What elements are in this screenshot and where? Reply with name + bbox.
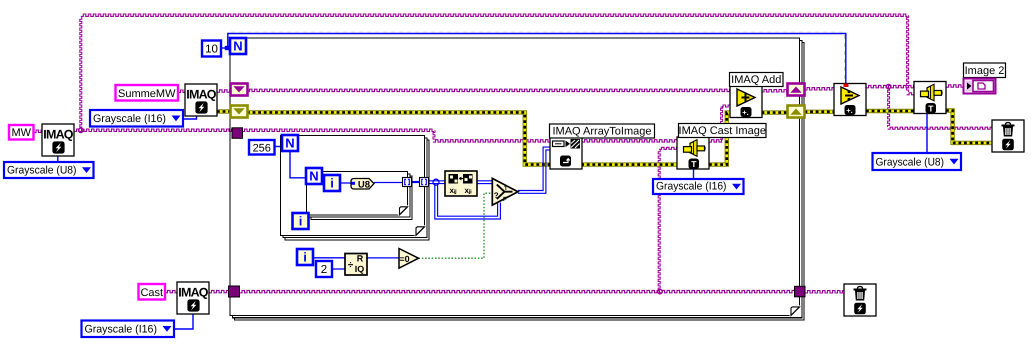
wire: Grayscale I16 dropdown to Cast create (174, 314, 193, 330)
svg-text:F: F (503, 196, 507, 203)
constant: 10 (202, 41, 221, 57)
dropdown: Grayscale (U8) right (873, 153, 962, 170)
wire: SummeMW label to IMAQ Create (178, 90, 185, 92)
wire: blue 10 to N (221, 46, 230, 50)
svg-text:IMAQ: IMAQ (186, 88, 217, 102)
wire: right Cast out to Image 2 (946, 85, 964, 87)
wire: Cast image across loop bottom (240, 290, 796, 292)
svg-text:+.: +. (846, 106, 852, 115)
tunnel: Cast image output tunnel (795, 286, 806, 297)
wire: error Divide to right Cast (866, 109, 914, 113)
node: Select (492, 178, 518, 205)
terminal: i of 256 loop (293, 213, 309, 229)
node: IMAQ Create Cast (177, 282, 209, 314)
svg-text:Grayscale (U8): Grayscale (U8) (876, 157, 945, 169)
wire: MW image long route over top to right cast (80, 14, 914, 128)
svg-text:T: T (928, 104, 934, 114)
for loop: outer N=10 loop (230, 38, 804, 320)
label: SummeMW control (116, 85, 179, 101)
tunnel: left SR purple (SummeMW image) (231, 84, 248, 96)
wire: MW label to IMAQ Create (34, 130, 43, 132)
wire: MW image inside loop to ArrayToImage (242, 129, 550, 142)
wire: blue count wire from 10 constant over loop to IMAQ Divide (228, 32, 846, 83)
tunnel: Cast image input tunnel (229, 286, 240, 297)
dropdown: Grayscale (I16) middle (653, 179, 744, 194)
svg-text:N: N (285, 136, 294, 151)
node: IMAQ Create SummeMW (185, 84, 217, 116)
svg-text:IMAQ ArrayToImage: IMAQ ArrayToImage (552, 126, 651, 138)
label: Image 2 (964, 63, 1006, 78)
terminal: i of innermost loop (324, 175, 340, 191)
indicator: Image 2 terminal (964, 79, 996, 94)
wire: Cast label to IMAQ Create (165, 290, 177, 292)
wire: error SummeMW create to left SR (217, 109, 232, 113)
svg-text:IMAQ Add: IMAQ Add (731, 74, 781, 86)
wire: 2D array transpose to select T input (477, 181, 492, 184)
node: Equal to 0 (399, 249, 419, 269)
wire: IMAQ Divide out to right Cast with branch to dispose (866, 84, 992, 129)
wire: error Cast Image up to IMAQ Add (709, 113, 730, 165)
wire: error right SR to Divide (805, 110, 835, 114)
wire: i of big loop to quotient (314, 257, 345, 259)
svg-text:Cast: Cast (140, 287, 163, 299)
node: IMAQ Dispose bottom (844, 284, 876, 316)
wire: error right Cast to dispose (946, 111, 992, 143)
terminal: N of innermost loop (306, 168, 322, 184)
wire: Grayscale I16 dropdown to Cast Image (693, 169, 695, 179)
wire: ArrayToImage out to Cast Image (582, 140, 677, 142)
svg-text:2: 2 (321, 264, 327, 276)
svg-text:R: R (357, 254, 364, 264)
svg-text:i: i (330, 176, 334, 191)
wire: Cast image to loop tunnel (209, 290, 230, 292)
tunnel: 256 loop auto-index (420, 178, 429, 187)
node: IMAQ Cast Image right (914, 82, 946, 114)
svg-text:Grayscale (I16): Grayscale (I16) (656, 181, 727, 193)
tunnel: MW image input tunnel (232, 128, 243, 139)
dropdown: Grayscale (I16) bottom-left (82, 321, 175, 338)
svg-text:?: ? (494, 191, 499, 200)
svg-text:xⱼᵢ: xⱼᵢ (465, 186, 472, 195)
svg-text:IMAQ Cast Image: IMAQ Cast Image (679, 125, 766, 137)
node: IMAQ Create MW (42, 124, 74, 156)
svg-text:IMAQ: IMAQ (43, 128, 74, 142)
svg-text:=0: =0 (399, 254, 409, 264)
svg-text:Grayscale (I16): Grayscale (I16) (93, 113, 166, 125)
wire: left SR to IMAQ Add (247, 89, 730, 91)
svg-text:Image 2: Image 2 (965, 65, 1005, 77)
svg-text:i: i (303, 250, 307, 265)
wire: IMAQ Add out to right SR (762, 90, 789, 92)
wire: Cast Image out up to IMAQ Add (709, 105, 730, 142)
svg-text:Grayscale (I16): Grayscale (I16) (85, 324, 158, 336)
wire: error left SR down to Cast Image (247, 112, 677, 164)
wire: 256 to N (274, 146, 282, 148)
node: IMAQ Dispose right (992, 120, 1024, 152)
for loop: 256 loop (281, 136, 430, 240)
wire: 2 to quotient (332, 268, 345, 270)
svg-text:IMAQ: IMAQ (178, 286, 209, 300)
terminal: i of outer loop (297, 249, 313, 265)
wire: 2D array down-around to select F input (435, 184, 501, 219)
svg-text:N: N (309, 169, 318, 184)
tunnel: left SR olive (error) (231, 106, 248, 118)
coercion dot on divide (844, 84, 849, 88)
svg-text:10: 10 (205, 44, 218, 56)
wire: Cast image branch up to Cast Image dst input (658, 147, 677, 293)
tunnel: right SR purple (788, 84, 805, 96)
svg-text:÷: ÷ (348, 260, 354, 271)
wire: 2D array select out to ArrayToImage (518, 147, 550, 193)
node: Quotient and Remainder (345, 254, 367, 276)
node: U8 conversion (351, 179, 374, 191)
svg-text:SummeMW: SummeMW (118, 88, 176, 100)
node: IMAQ Divide (834, 84, 866, 116)
wire: quotient R to equals-zero (367, 257, 399, 259)
wire: boolean equals-zero to select S input (419, 193, 493, 258)
node: IMAQ Cast Image (677, 137, 709, 169)
dropdown: Grayscale (I16) top-left (90, 110, 183, 127)
svg-text:i: i (299, 214, 303, 229)
label: IMAQ Add (730, 73, 784, 87)
label: IMAQ ArrayToImage (550, 124, 655, 138)
wire: SummeMW image to left shift register (217, 90, 232, 92)
wire: Grayscale U8 dropdown to right Cast (926, 114, 928, 155)
svg-text:xᵢⱼ: xᵢⱼ (450, 186, 458, 195)
wire: i to U8 convert (340, 182, 351, 184)
wire: U8 to inner tunnel (374, 182, 403, 184)
terminal: N of 256 loop (282, 135, 298, 151)
label: Cast control (139, 284, 166, 300)
wire: Grayscale I16 dropdown to SummeMW create (183, 116, 197, 120)
svg-text:256: 256 (253, 142, 271, 154)
wire: 1D array between tunnels (411, 181, 420, 183)
svg-text:N: N (233, 39, 242, 54)
node: IMAQ Add (730, 86, 762, 118)
for loop: innermost loop (307, 172, 413, 220)
constant: 2 (316, 261, 332, 277)
svg-text:U8: U8 (358, 179, 370, 190)
tunnel: right SR olive (788, 106, 805, 118)
wire: Grayscale U8 dropdown to MW create (57, 156, 59, 163)
dropdown: Grayscale (U8) left (4, 162, 94, 178)
svg-text:Grayscale (U8): Grayscale (U8) (7, 165, 77, 177)
wire: error IMAQ Add to right SR (762, 110, 789, 114)
label: IMAQ Cast Image (679, 124, 767, 138)
constant: 256 (249, 140, 275, 155)
label: MW control (9, 125, 34, 140)
tunnel: inner loop auto-index (403, 178, 412, 187)
terminal: N of outer loop (230, 38, 246, 54)
svg-text:T: T (691, 159, 697, 169)
wire: Cast image to bottom dispose (805, 291, 845, 293)
wire: MW image out to loop tunnel with branch up (74, 128, 232, 132)
wire: N of 256 loop to inner N (290, 151, 306, 178)
node: Transpose 2D Array (445, 171, 477, 196)
node: IMAQ ArrayToImage (550, 137, 582, 169)
svg-text:T: T (504, 185, 508, 192)
svg-text:MW: MW (11, 127, 31, 139)
wire: right SR to IMAQ Divide (805, 88, 835, 90)
svg-text:+.: +. (742, 108, 748, 117)
svg-text:IQ: IQ (355, 264, 365, 274)
wire: 2D array tunnel to transpose with junction (428, 179, 446, 185)
